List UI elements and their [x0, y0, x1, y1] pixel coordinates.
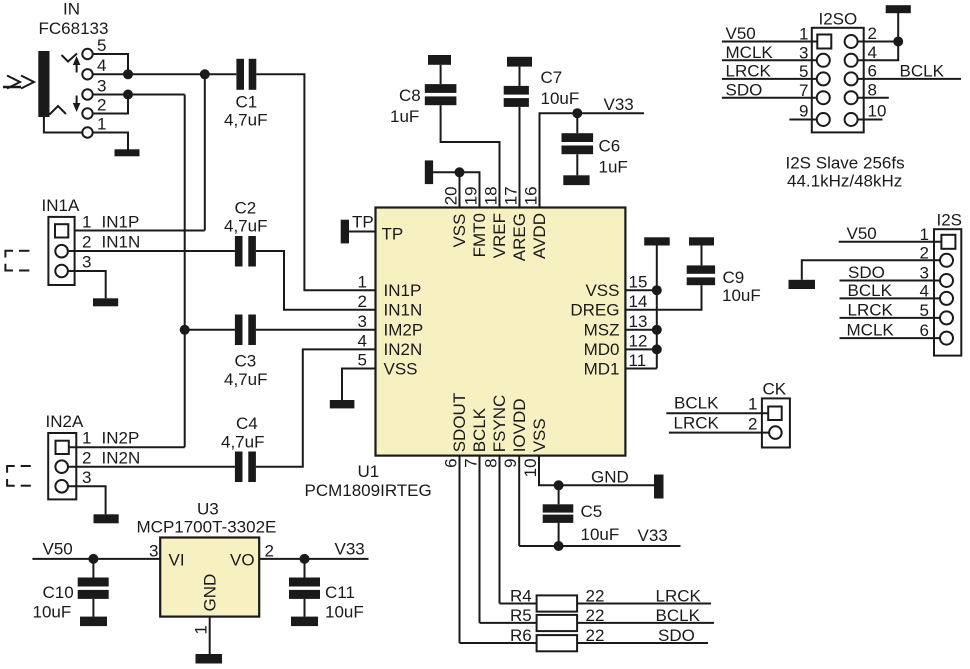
svg-text:I2S Slave 256fs: I2S Slave 256fs	[786, 154, 905, 173]
svg-text:3: 3	[97, 77, 106, 96]
svg-text:22: 22	[586, 587, 605, 606]
svg-text:MCLK: MCLK	[847, 321, 895, 340]
svg-text:VI: VI	[169, 551, 185, 570]
junction C6	[572, 108, 582, 118]
jack pin 3	[82, 89, 92, 99]
I2SO pin 8	[845, 91, 858, 104]
wire TP to U1	[349, 231, 376, 233]
capacitor C8	[425, 84, 457, 93]
capacitor C3	[235, 315, 243, 346]
svg-text:V33: V33	[638, 526, 668, 545]
wire LRCK to I2S pin5	[840, 317, 941, 319]
svg-text:2: 2	[82, 448, 91, 467]
wire BCLK from I2SO pin6	[858, 78, 961, 80]
svg-text:IN2N: IN2N	[102, 448, 141, 467]
svg-text:C10: C10	[43, 583, 74, 602]
svg-text:C2: C2	[235, 199, 257, 218]
svg-text:10uF: 10uF	[722, 286, 761, 305]
capacitor C5	[558, 485, 560, 504]
connector IN1A body	[48, 217, 74, 285]
resistor R5	[480, 622, 537, 624]
svg-text:5: 5	[799, 62, 808, 81]
U1 top pin 16 AVDD	[540, 113, 645, 207]
junction C5 bottom	[554, 541, 564, 551]
connector IN1A pin 3	[55, 265, 68, 278]
svg-text:10uF: 10uF	[541, 89, 580, 108]
svg-text:C9: C9	[723, 268, 745, 287]
connector IN2A pin 2	[55, 460, 68, 473]
svg-text:LRCK: LRCK	[674, 414, 720, 433]
svg-text:10uF: 10uF	[33, 603, 72, 622]
svg-text:U3: U3	[197, 500, 219, 519]
capacitor C9	[687, 265, 715, 273]
svg-text:1: 1	[920, 225, 929, 244]
wire LRCK to CK pin2	[669, 432, 769, 434]
svg-text:V33: V33	[335, 540, 365, 559]
I2S pin 5	[940, 311, 953, 324]
svg-text:SDOUT: SDOUT	[450, 393, 469, 453]
jack pin 4	[82, 69, 92, 79]
dashed mating bracket IN2A	[7, 466, 31, 486]
svg-text:1: 1	[192, 625, 211, 634]
wire node to C3	[185, 329, 235, 331]
resistor R6	[460, 642, 537, 644]
svg-text:VSS: VSS	[530, 418, 549, 452]
junction C10	[88, 554, 98, 564]
svg-text:AVDD: AVDD	[530, 213, 549, 259]
wire C4 to U1 pin4	[256, 349, 376, 466]
wire LRCK to I2SO pin5	[722, 78, 817, 80]
svg-text:9: 9	[501, 458, 520, 467]
svg-text:SDO: SDO	[726, 81, 763, 100]
svg-text:6: 6	[920, 321, 929, 340]
ground (jack)	[115, 149, 140, 156]
wire MCLK to I2SO pin3	[722, 59, 817, 61]
ground (I2S pin2)	[789, 280, 816, 289]
wire pin1 to ground	[93, 133, 128, 150]
svg-text:1: 1	[748, 395, 757, 414]
svg-text:VSS: VSS	[585, 281, 619, 300]
connector IN1A pin 1 (square)	[55, 224, 68, 237]
svg-text:TP: TP	[382, 225, 404, 244]
junction I2SO ground	[893, 37, 903, 47]
U1 top pin 18 VREF	[441, 105, 500, 207]
U1 top pin 20 VSS	[459, 172, 461, 207]
wire IN2P from IN2A pin1 to jack pin3 line	[69, 446, 185, 448]
U1 bottom pin 9 IOVDD	[518, 456, 520, 546]
connector IN2A pin 3	[55, 480, 68, 493]
svg-text:IOVDD: IOVDD	[510, 398, 529, 452]
node IN1P wire from IN1A pin1	[69, 230, 205, 232]
dashed mating bracket IN1A	[5, 251, 29, 271]
svg-text:3: 3	[358, 312, 367, 331]
connector IN1A pin 2	[55, 245, 68, 258]
wire jack sleeve to pin1	[44, 117, 82, 133]
svg-text:VREF: VREF	[490, 213, 509, 258]
U1 right pin 14 DREG	[625, 285, 701, 310]
I2SO pin 5	[817, 72, 830, 85]
wire I2S pin2 to ground	[802, 260, 940, 280]
wire pin5 to pin4 node	[93, 54, 128, 74]
junction pin2/pin3	[123, 90, 133, 100]
svg-text:3: 3	[82, 253, 91, 272]
ground (IN1A)	[93, 298, 118, 306]
svg-text:6: 6	[868, 62, 877, 81]
IC U1 body PCM1809IRTEG	[376, 208, 626, 456]
capacitor C6	[576, 113, 578, 133]
svg-text:FMT0: FMT0	[470, 213, 489, 257]
connector I2SO body	[812, 28, 864, 133]
wire jack pin3 vertical down to IN2P	[184, 95, 186, 448]
junction IN1P tap	[200, 69, 210, 79]
regulator U3 body	[160, 538, 259, 617]
capacitor C11	[304, 559, 306, 578]
jack switch contact upper	[62, 54, 78, 62]
svg-text:8: 8	[868, 81, 877, 100]
svg-text:2: 2	[358, 292, 367, 311]
svg-text:5: 5	[920, 301, 929, 320]
svg-text:IN2P: IN2P	[102, 429, 140, 448]
junction C5 top	[554, 480, 564, 490]
svg-text:IN1N: IN1N	[102, 233, 141, 252]
I2SO pin 10	[845, 113, 858, 126]
svg-text:1: 1	[799, 25, 808, 44]
stub I2SO pin9	[789, 119, 816, 121]
wire BCLK to I2S pin4	[840, 297, 941, 299]
svg-text:10uF: 10uF	[325, 603, 364, 622]
U1 bottom pin 6 SDOUT	[459, 456, 461, 643]
junction C11	[300, 554, 310, 564]
I2SO pin 3	[817, 54, 830, 67]
svg-text:3: 3	[149, 542, 158, 561]
svg-text:12: 12	[629, 332, 648, 351]
svg-text:C3: C3	[235, 352, 257, 371]
svg-text:DREG: DREG	[570, 301, 619, 320]
capacitor C10	[92, 559, 94, 578]
wire IN2N from IN2A pin2 to C4	[68, 466, 235, 468]
jack pin 2	[82, 108, 92, 118]
svg-text:1: 1	[82, 429, 91, 448]
capacitor C2	[235, 236, 243, 267]
svg-text:MD1: MD1	[584, 359, 620, 378]
svg-text:2: 2	[82, 233, 91, 252]
svg-text:19: 19	[462, 186, 481, 205]
svg-text:SDO: SDO	[658, 626, 695, 645]
svg-text:U1: U1	[358, 462, 380, 481]
svg-text:R4: R4	[510, 587, 532, 606]
svg-text:44.1kHz/48kHz: 44.1kHz/48kHz	[787, 172, 902, 191]
svg-text:1: 1	[358, 273, 367, 292]
wire U3 pin1 to ground	[209, 617, 211, 654]
svg-text:4: 4	[97, 56, 106, 75]
svg-text:4,7uF: 4,7uF	[224, 111, 267, 130]
resistor R4	[500, 603, 537, 605]
svg-text:VO: VO	[230, 551, 255, 570]
svg-text:7: 7	[462, 458, 481, 467]
svg-text:2: 2	[748, 415, 757, 434]
U1 right pin 11 MD1	[625, 368, 656, 370]
I2SO pin 2	[845, 35, 858, 48]
I2SO pin 6	[845, 72, 858, 85]
svg-text:1: 1	[82, 213, 91, 232]
svg-text:22: 22	[586, 606, 605, 625]
svg-text:16: 16	[522, 186, 541, 205]
junction C3 node	[180, 325, 190, 335]
svg-text:MCLK: MCLK	[726, 43, 774, 62]
svg-text:1uF: 1uF	[390, 107, 419, 126]
I2SO pin 7	[817, 91, 830, 104]
wire SDO to I2S pin3	[840, 280, 941, 282]
wire to sideways ground	[433, 171, 459, 173]
svg-text:AREG: AREG	[510, 213, 529, 261]
I2SO pin 1 (square)	[817, 35, 831, 49]
svg-text:13: 13	[629, 312, 648, 331]
svg-text:6: 6	[442, 458, 461, 467]
svg-text:MSZ: MSZ	[584, 321, 620, 340]
svg-text:LRCK: LRCK	[726, 62, 772, 81]
ground (U1 pin5)	[330, 400, 355, 408]
svg-text:V33: V33	[604, 95, 634, 114]
capacitor C7	[504, 86, 529, 95]
svg-text:I2SO: I2SO	[819, 10, 858, 29]
junction pin5/pin4	[123, 69, 133, 79]
test point TP	[341, 220, 349, 244]
wire MCLK to I2S pin6	[840, 337, 941, 339]
svg-text:IN1P: IN1P	[384, 281, 422, 300]
junction top ground	[455, 167, 465, 177]
CK pin 2	[769, 426, 782, 439]
svg-text:IN2A: IN2A	[46, 412, 84, 431]
wire V50 to I2S pin1	[839, 241, 942, 243]
svg-text:I2S: I2S	[937, 211, 963, 230]
stub I2SO pin10	[858, 119, 883, 121]
wire pin4 node to C1	[93, 73, 237, 75]
svg-text:4: 4	[920, 282, 929, 301]
ground (I2SO)	[886, 5, 911, 13]
stub I2SO pin8	[858, 97, 889, 99]
wire IN1P vertical to jack tip node	[204, 74, 206, 230]
wire pin2 to pin3 node	[93, 95, 128, 114]
svg-text:V50: V50	[43, 540, 73, 559]
svg-text:R6: R6	[510, 626, 532, 645]
U1 top pin 17 AREG	[519, 107, 521, 208]
svg-text:5: 5	[358, 351, 367, 370]
svg-text:C7: C7	[541, 68, 563, 87]
svg-text:C4: C4	[236, 414, 258, 433]
ground (GND bar)	[654, 475, 664, 499]
svg-text:3: 3	[920, 264, 929, 283]
svg-text:LRCK: LRCK	[848, 301, 894, 320]
svg-text:11: 11	[629, 351, 647, 370]
svg-text:4,7uF: 4,7uF	[221, 433, 264, 452]
svg-text:2: 2	[265, 542, 274, 561]
connector CK body	[762, 398, 790, 447]
svg-text:PCM1809IRTEG: PCM1809IRTEG	[305, 481, 432, 500]
I2SO pin 4	[845, 54, 858, 67]
svg-text:1uF: 1uF	[599, 158, 628, 177]
ground (U3)	[196, 654, 223, 664]
svg-text:22: 22	[586, 626, 605, 645]
svg-text:IN2N: IN2N	[384, 340, 423, 359]
connector I2S body	[934, 229, 961, 355]
wire IN2A pin3 to ground	[68, 486, 106, 514]
ground (right bus)	[644, 237, 670, 245]
svg-text:14: 14	[629, 292, 648, 311]
capacitor C1	[236, 59, 244, 90]
wire IN1A pin3 to ground	[68, 271, 106, 298]
U1 bottom pin 8 FSYNC	[499, 456, 501, 604]
connector IN2A body	[48, 433, 76, 499]
jack switch contact lower	[50, 106, 67, 115]
jack switch arrow down (pin3 to pin2 contact)	[76, 96, 78, 109]
svg-text:IN1N: IN1N	[384, 301, 423, 320]
U1 top pin 19 FMT0	[460, 172, 480, 207]
svg-text:4: 4	[358, 332, 367, 351]
svg-text:IN1P: IN1P	[102, 213, 140, 232]
I2S pin 4	[940, 292, 953, 305]
svg-text:4,7uF: 4,7uF	[224, 370, 267, 389]
svg-text:TP: TP	[352, 213, 374, 232]
ground (IN2A)	[94, 514, 119, 523]
svg-text:MD0: MD0	[584, 340, 620, 359]
junction pin12	[652, 344, 662, 354]
svg-text:2: 2	[868, 24, 877, 43]
svg-text:3: 3	[799, 44, 808, 63]
I2S pin 6	[940, 332, 953, 345]
I2S pin 3	[940, 274, 953, 287]
svg-text:MCP1700T-3302E: MCP1700T-3302E	[137, 518, 277, 537]
jack switch arrow up (pin4 to pin5 contact)	[76, 60, 78, 73]
svg-text:IN1A: IN1A	[42, 196, 80, 215]
svg-text:9: 9	[799, 102, 808, 121]
svg-text:7: 7	[799, 81, 808, 100]
U1 right pin 13 MSZ	[625, 329, 656, 331]
wire U1 pin5 to ground	[342, 369, 376, 401]
svg-text:BCLK: BCLK	[656, 606, 701, 625]
ground (pins 19/20)	[425, 160, 433, 184]
svg-text:1: 1	[97, 115, 106, 134]
svg-text:R5: R5	[510, 606, 532, 625]
CK pin 1 (square)	[768, 407, 782, 421]
svg-text:3: 3	[82, 468, 91, 487]
svg-text:10uF: 10uF	[581, 525, 620, 544]
svg-text:LRCK: LRCK	[656, 587, 702, 606]
wire U3 pin2 to V33	[259, 558, 368, 560]
svg-text:C6: C6	[599, 137, 621, 156]
svg-text:FSYNC: FSYNC	[490, 395, 509, 453]
svg-text:C11: C11	[325, 583, 355, 602]
svg-text:SDO: SDO	[848, 263, 885, 282]
wire V50 to U3 pin3	[32, 558, 160, 560]
svg-text:CK: CK	[763, 380, 787, 399]
svg-text:4,7uF: 4,7uF	[224, 217, 267, 236]
wire C2 to U1 pin2	[256, 251, 376, 310]
svg-text:17: 17	[502, 186, 521, 205]
svg-text:2: 2	[920, 244, 929, 263]
svg-text:C1: C1	[236, 93, 258, 112]
wire pin3 to vertical	[93, 94, 185, 96]
jack pin 5	[82, 49, 92, 59]
I2S pin 2	[940, 254, 953, 267]
wire V33 bottom	[519, 545, 680, 547]
wire SDO to I2SO pin7	[722, 97, 817, 99]
connector IN2A pin 1 (square)	[56, 441, 69, 454]
svg-text:20: 20	[442, 186, 461, 205]
svg-text:8: 8	[482, 458, 501, 467]
svg-text:IM2P: IM2P	[384, 321, 424, 340]
svg-text:GND: GND	[591, 468, 629, 487]
svg-text:V50: V50	[726, 24, 756, 43]
svg-text:GND: GND	[201, 574, 220, 612]
junction pin13	[652, 325, 662, 335]
U1 right pin 15 VSS	[625, 289, 656, 291]
svg-text:4: 4	[868, 43, 877, 62]
svg-text:BCLK: BCLK	[848, 281, 893, 300]
svg-text:IN: IN	[63, 0, 80, 19]
wire V50 to I2SO pin1	[722, 41, 817, 43]
wire C1 to U1 pin1	[256, 74, 375, 290]
svg-text:VSS: VSS	[450, 214, 469, 248]
vertical ground bus right of U1	[656, 245, 658, 368]
wire I2SO pin2/pin4 to ground	[858, 41, 899, 43]
svg-text:10: 10	[521, 458, 540, 477]
wire IN1N from IN1A pin2 to C2	[68, 250, 235, 252]
svg-text:2: 2	[97, 96, 106, 115]
svg-text:10: 10	[868, 102, 887, 121]
capacitor C4	[235, 452, 243, 483]
U1 bottom pin 10 VSS	[539, 456, 654, 486]
svg-text:BCLK: BCLK	[470, 407, 489, 452]
junction pin15	[652, 285, 662, 295]
svg-text:C8: C8	[399, 86, 421, 105]
svg-text:VSS: VSS	[384, 359, 418, 378]
wire BCLK to CK pin1	[666, 412, 768, 414]
svg-text:V50: V50	[847, 224, 877, 243]
jack pin 1	[82, 127, 92, 137]
svg-text:BCLK: BCLK	[674, 394, 719, 413]
I2S pin 1 (square)	[941, 235, 955, 249]
svg-text:15: 15	[629, 273, 648, 292]
svg-text:18: 18	[482, 186, 501, 205]
wire C3 to U1 pin3	[256, 329, 376, 331]
U1 right pin 12 MD0	[625, 348, 656, 350]
I2SO pin 9	[817, 113, 830, 126]
input arrow symbol	[3, 76, 34, 89]
svg-text:C5: C5	[581, 502, 603, 521]
svg-text:5: 5	[97, 36, 106, 55]
U1 bottom pin 7 BCLK	[479, 456, 481, 623]
connector IN FC68133 jack body	[38, 51, 49, 117]
svg-text:BCLK: BCLK	[900, 62, 945, 81]
